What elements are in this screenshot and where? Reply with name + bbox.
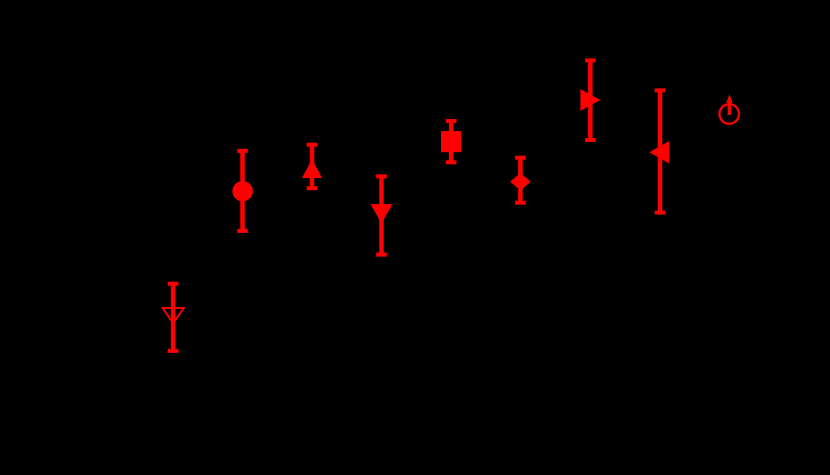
error bar P6 — [515, 158, 526, 203]
error bar P3 — [307, 145, 318, 189]
error bar P2 — [237, 151, 248, 231]
data point P3: filled up-triangle marker — [302, 159, 322, 178]
data point P1: open down-triangle marker — [163, 308, 184, 323]
data point P4: filled down-triangle marker — [371, 204, 393, 223]
error bar P4 — [376, 176, 387, 254]
error bar P1 (vertical line with caps) — [168, 284, 179, 351]
data point P7: filled right-triangle marker — [580, 89, 600, 111]
data point P6: filled diamond marker — [510, 173, 531, 190]
data point P8: filled left-triangle marker — [649, 141, 669, 164]
error bar P7 — [585, 60, 596, 140]
data point P9: open circle with upward tick (power-style symbol) — [719, 94, 739, 124]
data point P5: filled square marker — [441, 131, 461, 152]
data point P2: filled circle marker — [232, 181, 252, 201]
error bar P8 — [655, 90, 666, 212]
error bar P5 — [446, 121, 457, 162]
